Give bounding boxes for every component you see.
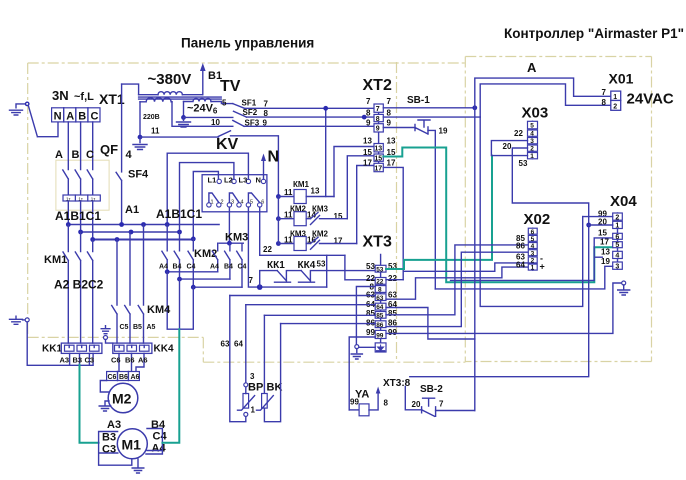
svg-text:63: 63: [376, 295, 384, 302]
wire 11 to KV switch: [140, 136, 218, 138]
svg-text:5: 5: [615, 242, 619, 249]
wire XT3-53 right teal to X03: [386, 156, 492, 269]
svg-text:3N: 3N: [52, 88, 69, 103]
svg-text:B5: B5: [133, 324, 142, 331]
svg-text:85: 85: [388, 309, 397, 318]
svg-text:N: N: [268, 149, 280, 166]
svg-text:13: 13: [387, 137, 396, 146]
wire chain riser: [260, 271, 278, 288]
wire 220B right end to SF3: [172, 102, 233, 127]
svg-text:8: 8: [376, 116, 380, 123]
KV internal contact 1-2: [209, 193, 219, 203]
motor M1: [117, 429, 147, 459]
XT3 ground-arrow cell: [378, 345, 384, 351]
svg-text:2: 2: [615, 214, 619, 221]
svg-text:6: 6: [261, 200, 264, 206]
svg-text:8: 8: [366, 109, 371, 118]
svg-text:13: 13: [601, 247, 610, 256]
wire SF2 to XT2-8: [247, 116, 375, 118]
svg-text:1: 1: [531, 265, 535, 272]
wire A: XT2-7 to X01-1: [475, 78, 611, 108]
wire 5 (24V right to SF1): [211, 102, 233, 104]
svg-text:N: N: [256, 176, 261, 185]
svg-text:86: 86: [376, 322, 384, 329]
wire KM2-15 riser to XT2-15: [347, 156, 375, 219]
wire L2 from B-bus: [180, 163, 234, 232]
svg-text:8: 8: [384, 399, 389, 408]
wire X03-2 (20) to X04-1 and SB-2: [410, 148, 589, 377]
KV internal contact 3-4: [229, 193, 239, 203]
svg-text:63: 63: [221, 340, 230, 349]
bus A1 (phase A): [68, 224, 219, 226]
switch KV contact: [218, 131, 230, 137]
wire XT3-63 left: [230, 295, 375, 297]
svg-text:53: 53: [366, 262, 375, 271]
controller boundary (Airmaster P1) dash-dot: [465, 57, 651, 363]
wires XT1 A B C down: [68, 122, 92, 170]
wire XT3-64 right: [386, 308, 475, 340]
svg-text:7: 7: [264, 100, 269, 109]
svg-text:99: 99: [376, 333, 384, 340]
svg-text:17: 17: [363, 159, 372, 168]
wire teal XT2-15 to X04-5: [383, 148, 612, 283]
switch SF2: [234, 111, 247, 117]
svg-text:N: N: [54, 111, 62, 123]
svg-text:1: 1: [251, 406, 256, 415]
svg-text:C6: C6: [111, 356, 121, 365]
wires KK4 outputs: [119, 353, 144, 371]
svg-text:SF1: SF1: [242, 99, 257, 108]
svg-text:КК1: КК1: [267, 260, 285, 271]
wire XT3-99 left to YA: [349, 337, 375, 410]
svg-text:A: A: [55, 149, 63, 161]
wire tie C4: [193, 286, 242, 288]
svg-text:X01: X01: [609, 71, 634, 87]
wire L3 from A-bus: [167, 153, 248, 224]
svg-text:5: 5: [530, 123, 534, 130]
ground under 220B: [133, 137, 147, 149]
svg-text:Контроллер "Airmaster P1": Контроллер "Airmaster P1": [504, 26, 684, 41]
svg-text:A6: A6: [131, 374, 140, 381]
svg-text:64: 64: [516, 261, 525, 270]
svg-text:A4: A4: [210, 264, 219, 271]
svg-text:2: 2: [531, 258, 535, 265]
QF thermal element A: [63, 195, 76, 201]
wire XT3-99 right to ground circle X04: [386, 283, 622, 333]
wire rail drop to XT3-22: [345, 255, 375, 279]
terminal block XT1 N A B C: [52, 108, 100, 122]
ground M1: [132, 459, 144, 473]
svg-text:86: 86: [516, 242, 525, 251]
transformer core lines: [139, 97, 222, 99]
wire KK rail 22: [260, 254, 345, 256]
node XT2-8 junction: [362, 115, 367, 120]
bus B1 (phase B): [81, 231, 180, 233]
wires M1 left bracket: [99, 432, 132, 466]
wire 24V left end to ground node: [183, 102, 185, 118]
ground M2: [99, 401, 111, 411]
svg-text:BP: BP: [248, 382, 263, 394]
svg-text:22: 22: [263, 245, 272, 254]
wire SF4 feeder: [121, 84, 123, 172]
bus C1 (phase C): [93, 238, 194, 240]
wire XT3-85 right to X02-4: [386, 245, 528, 315]
contactor KM3 poles: [212, 243, 217, 272]
svg-text:~380V: ~380V: [148, 71, 192, 88]
svg-text:6: 6: [531, 229, 535, 236]
svg-text:13: 13: [363, 137, 372, 146]
wire SF3 to XT2-9: [244, 125, 374, 127]
svg-text:B3: B3: [73, 356, 83, 365]
svg-text:1: 1: [530, 153, 534, 160]
svg-text:QF: QF: [100, 142, 118, 157]
svg-text:A1: A1: [125, 204, 139, 216]
wire XT2-8 right: [383, 116, 480, 118]
wire XT3-22 right: [386, 279, 403, 281]
svg-text:+: +: [540, 262, 545, 272]
wire XT3-22/17 to X02-2: [403, 263, 528, 271]
secondary winding ~24V: [184, 99, 212, 102]
svg-text:XT3: XT3: [363, 234, 392, 251]
svg-text:A1B1C1: A1B1C1: [55, 209, 101, 223]
svg-text:A6: A6: [138, 356, 148, 365]
transformer TV primary winding ~380V: [139, 94, 158, 96]
svg-text:22: 22: [514, 129, 523, 138]
svg-text:6: 6: [615, 234, 619, 241]
svg-text:C4: C4: [238, 264, 247, 271]
secondary winding 220B: [140, 98, 172, 102]
wire XT2-9 right to SB-1: [383, 127, 415, 129]
KV relay box: [202, 175, 267, 212]
node 7 (KK chain): [257, 284, 263, 290]
svg-text:24VAC: 24VAC: [627, 91, 674, 108]
wires KK1 outputs: [70, 353, 90, 364]
svg-text:A1B1C1: A1B1C1: [156, 207, 202, 221]
svg-text:5: 5: [222, 99, 227, 108]
breaker QF pole B: [75, 170, 81, 195]
wire XT3-85 left: [264, 314, 375, 316]
svg-text:B4: B4: [224, 264, 233, 271]
svg-text:3: 3: [250, 372, 255, 381]
svg-text:13: 13: [374, 146, 382, 153]
wire KM1-13 riser to XT2-13: [334, 147, 375, 197]
node 24V ground: [181, 115, 186, 120]
svg-text:3: 3: [530, 138, 534, 145]
svg-text:SB-1: SB-1: [407, 95, 430, 106]
svg-text:SF4: SF4: [128, 169, 149, 181]
svg-text:8: 8: [602, 98, 607, 107]
svg-text:5: 5: [250, 200, 253, 206]
svg-text:7: 7: [376, 106, 380, 113]
wire 220B left end to node 11: [139, 102, 141, 137]
svg-text:15: 15: [374, 155, 382, 162]
svg-text:A2 B2C2: A2 B2C2: [54, 278, 104, 292]
svg-text:9: 9: [387, 119, 392, 128]
svg-text:7: 7: [249, 276, 254, 285]
svg-text:20: 20: [503, 142, 512, 151]
svg-text:XT2: XT2: [363, 77, 392, 94]
svg-text:13: 13: [311, 187, 320, 196]
wire SF1 to XT2-7: [245, 107, 375, 109]
svg-text:20: 20: [412, 400, 421, 409]
wire tie B4: [180, 278, 230, 280]
wire KV-6 down (22) to KK rail: [259, 207, 261, 255]
svg-text:XT3:8: XT3:8: [383, 378, 411, 389]
ground XT3: [351, 349, 362, 359]
svg-text:X02: X02: [524, 211, 551, 228]
arrow B1: [202, 68, 204, 95]
ground circle X04: [622, 281, 626, 285]
svg-text:7: 7: [366, 97, 371, 106]
wire 6 to SF2: [184, 116, 233, 118]
ground with circle (above KK4): [101, 326, 110, 334]
svg-text:63: 63: [388, 291, 397, 300]
svg-text:17: 17: [600, 238, 609, 247]
svg-text:99: 99: [350, 398, 359, 407]
svg-text:11: 11: [284, 188, 293, 197]
svg-text:19: 19: [439, 127, 448, 136]
svg-text:L2: L2: [224, 176, 233, 185]
wire KV switch to coil bus riser: [231, 136, 279, 197]
svg-text:KM4: KM4: [147, 304, 171, 316]
svg-text:9: 9: [376, 126, 380, 133]
svg-text:11: 11: [151, 127, 160, 136]
svg-text:4: 4: [531, 243, 535, 250]
svg-text:4: 4: [615, 253, 619, 260]
svg-text:A4: A4: [152, 443, 167, 455]
svg-text:A3: A3: [107, 419, 121, 431]
svg-text:Панель управления: Панель управления: [181, 36, 314, 51]
wire L1 from C-bus: [193, 172, 218, 239]
svg-text:B4: B4: [173, 264, 182, 271]
KV terminals L1 L2 L3 N: [217, 179, 221, 183]
wire KV-5 down to KK node 7: [248, 207, 259, 287]
svg-text:99: 99: [366, 328, 375, 337]
QF breaker dashed box: [56, 160, 109, 210]
ground under 24V: [177, 117, 191, 127]
wire ground loop under KK1: [27, 322, 93, 365]
svg-text:8: 8: [378, 287, 382, 294]
svg-text:X04: X04: [610, 193, 637, 210]
svg-text:53: 53: [519, 159, 528, 168]
svg-text:2: 2: [221, 200, 224, 206]
svg-text:B6: B6: [125, 356, 135, 365]
wire rail drop to chain bottom: [326, 255, 328, 287]
QF thermal element C: [88, 195, 101, 201]
node bus dots: [66, 222, 71, 227]
svg-text:KK1: KK1: [42, 344, 62, 355]
svg-text:SB-2: SB-2: [420, 384, 443, 395]
svg-text:L3: L3: [239, 176, 248, 185]
svg-text:A5: A5: [147, 324, 156, 331]
wire XT2-17 right down: [383, 167, 403, 279]
svg-text:KK4: KK4: [154, 344, 174, 355]
svg-text:КМ1: КМ1: [293, 180, 310, 189]
svg-text:99: 99: [388, 328, 397, 337]
svg-text:2: 2: [530, 146, 534, 153]
svg-text:3: 3: [615, 263, 619, 270]
ground (top-left input): [10, 104, 25, 115]
svg-text:M2: M2: [112, 391, 132, 407]
wire XT2-7 right to node A: [383, 107, 475, 109]
svg-text:KV: KV: [216, 136, 239, 153]
node 11: [138, 135, 143, 140]
inner boundary at terminal strip column: [396, 62, 398, 362]
svg-text:SF2: SF2: [243, 108, 258, 117]
wire X04-4 stub (13): [595, 256, 602, 258]
svg-text:TV: TV: [220, 78, 241, 95]
motor M2 terminal strip: [107, 372, 140, 381]
svg-text:15: 15: [334, 212, 343, 221]
svg-text:64: 64: [234, 340, 243, 349]
svg-text:22: 22: [376, 279, 384, 286]
switch SF3: [233, 120, 244, 126]
wire X04-3 (19): [435, 266, 612, 289]
thermal relay KK4 box: [113, 343, 152, 353]
svg-text:7: 7: [439, 400, 444, 409]
svg-text:1: 1: [613, 94, 617, 101]
svg-text:M1: M1: [122, 437, 142, 453]
wire X04-6 (15): [451, 238, 613, 281]
wire teal M1 right feed: [162, 329, 179, 443]
wires M1 right bracket: [146, 429, 162, 455]
wire phase-A to TV primary: [122, 84, 139, 95]
svg-text:4: 4: [241, 200, 244, 206]
svg-text:10: 10: [211, 118, 220, 127]
svg-text:A: A: [527, 60, 537, 75]
svg-text:C3: C3: [85, 356, 95, 365]
svg-text:7: 7: [602, 88, 607, 97]
svg-text:B3: B3: [102, 432, 116, 444]
wire XT3-63 right to X02-1: [386, 267, 528, 299]
sensor BP (pressure): [230, 296, 246, 422]
KV bottom terminals 1-6: [207, 203, 211, 207]
panel boundary (Панель управления) dash-dot: [28, 63, 466, 362]
motor M2: [108, 383, 138, 413]
ground circle XT3: [355, 345, 359, 349]
svg-text:22: 22: [388, 274, 397, 283]
svg-text:C4: C4: [187, 264, 196, 271]
svg-text:15: 15: [598, 229, 607, 238]
breaker QF pole A: [63, 170, 69, 195]
svg-text:~f,L: ~f,L: [74, 91, 94, 103]
wire XT3-8 left to ground circle: [356, 287, 375, 345]
wire input switch blade to N: [28, 106, 58, 137]
svg-text:17: 17: [387, 159, 396, 168]
svg-text:85: 85: [366, 309, 375, 318]
svg-text:1: 1: [615, 223, 619, 230]
svg-text:8: 8: [387, 109, 392, 118]
svg-text:X03: X03: [522, 105, 549, 122]
wire SB-1 19 down: [428, 130, 435, 289]
wire XT2-8 to X01-2: [480, 84, 611, 117]
wire 7 vertical XT2-7 to SB-2: [474, 108, 476, 411]
svg-text:6: 6: [213, 107, 218, 116]
svg-text:85: 85: [376, 313, 384, 320]
svg-text:4: 4: [126, 149, 133, 161]
breaker QF pole C: [87, 170, 93, 195]
svg-text:5: 5: [531, 236, 535, 243]
wire XT3-86 left: [281, 323, 376, 325]
svg-text:15: 15: [363, 148, 372, 157]
wire tie A4: [167, 271, 218, 273]
svg-text:7: 7: [387, 97, 392, 106]
wire XT3-86 right to X02-3: [386, 252, 528, 326]
svg-text:A: A: [66, 111, 74, 123]
svg-text:3: 3: [531, 250, 535, 257]
svg-text:17: 17: [374, 165, 382, 172]
wire 8-branch to KM1 row (SF2 junction): [325, 108, 327, 196]
svg-text:L1: L1: [208, 176, 217, 185]
wire X04-1 (20): [589, 224, 613, 226]
svg-text:C6: C6: [108, 374, 117, 381]
svg-text:B6: B6: [119, 374, 128, 381]
svg-text:53: 53: [376, 266, 384, 273]
svg-text:C4: C4: [153, 431, 168, 443]
wire KM3-17 riser to XT2-17: [357, 166, 375, 244]
wires A4B4C4 down to M1 collector: [167, 272, 193, 329]
svg-text:КК4: КК4: [298, 260, 316, 271]
wire X03-3/1 bracket: [491, 141, 527, 156]
svg-text:19: 19: [601, 257, 610, 266]
svg-text:B: B: [78, 111, 86, 123]
svg-text:53: 53: [317, 260, 326, 269]
svg-text:C: C: [86, 149, 94, 161]
svg-text:9: 9: [366, 119, 371, 128]
svg-text:A4: A4: [159, 264, 168, 271]
svg-text:64: 64: [376, 304, 384, 311]
svg-text:C5: C5: [120, 324, 129, 331]
wire X04-2 (99): [583, 216, 613, 218]
node coil bus dots: [276, 194, 281, 199]
svg-text:2: 2: [613, 103, 617, 110]
svg-text:1: 1: [211, 200, 214, 206]
svg-text:C: C: [91, 111, 99, 123]
node (input switch pivot): [25, 102, 30, 107]
svg-text:A3: A3: [60, 356, 70, 365]
wire chain bottom rail: [260, 286, 327, 288]
KV internal contact 5-6: [248, 193, 259, 203]
svg-text:B: B: [72, 149, 80, 161]
svg-text:3: 3: [231, 200, 234, 206]
wire XT2-8 down branch to X04-2: [480, 117, 583, 306]
wires QF outputs to bus: [68, 201, 92, 240]
ground with circle (left of KK1): [10, 316, 25, 324]
wire XT3-64 left: [246, 304, 375, 306]
switch SF1: [233, 104, 245, 109]
QF thermal element B: [75, 195, 88, 201]
arrow N above KV: [263, 158, 265, 179]
svg-text:4: 4: [530, 131, 534, 138]
switch SF4: [116, 172, 122, 224]
wire teal KK1 to M1: [80, 365, 99, 443]
wire KV-3 down to KM3 group bus: [228, 207, 230, 243]
svg-text:~24V: ~24V: [187, 103, 214, 115]
svg-text:220В: 220В: [143, 114, 160, 121]
svg-text:KM1: KM1: [44, 254, 67, 266]
